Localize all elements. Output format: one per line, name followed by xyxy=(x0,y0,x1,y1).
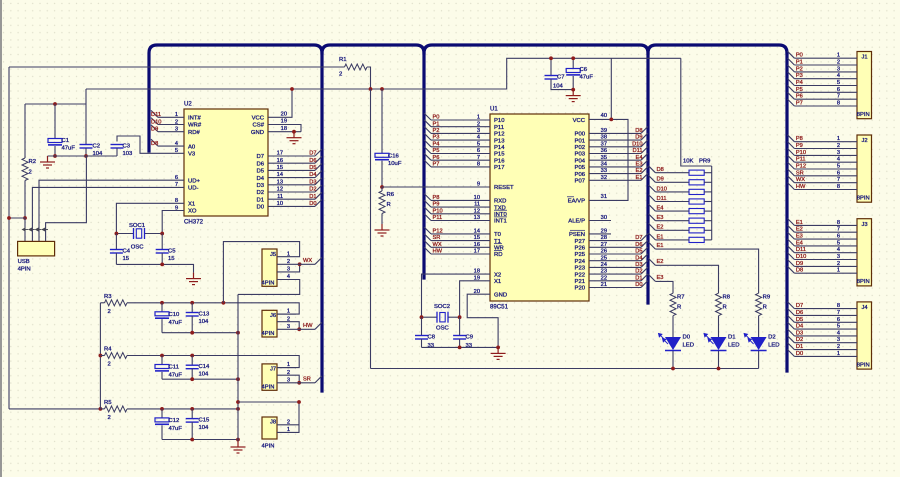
U2 pin 9 XO wire to crystal xyxy=(162,205,184,233)
svg-text:J5: J5 xyxy=(270,252,276,258)
svg-text:C15: C15 xyxy=(199,418,211,424)
svg-text:J7: J7 xyxy=(270,367,276,373)
svg-text:P6: P6 xyxy=(433,155,440,161)
svg-text:SOC2: SOC2 xyxy=(434,304,450,310)
svg-text:4: 4 xyxy=(837,157,840,163)
junction C11 top xyxy=(160,354,164,358)
svg-text:D9: D9 xyxy=(796,261,803,267)
svg-text:14: 14 xyxy=(277,172,283,178)
svg-text:104: 104 xyxy=(199,425,210,431)
svg-text:1: 1 xyxy=(287,309,290,315)
svg-text:R: R xyxy=(723,305,727,311)
wire ground rail 1 xyxy=(162,332,238,334)
connector J2 8PIN xyxy=(857,135,872,202)
svg-text:10: 10 xyxy=(474,195,480,201)
svg-text:P10: P10 xyxy=(796,150,806,156)
svg-text:12: 12 xyxy=(277,187,283,193)
junction C15 bottom xyxy=(190,438,194,442)
svg-text:P26: P26 xyxy=(575,246,586,252)
svg-text:PSEN: PSEN xyxy=(569,232,585,238)
svg-text:8PIN: 8PIN xyxy=(857,112,870,118)
svg-text:29: 29 xyxy=(601,229,607,235)
svg-text:2: 2 xyxy=(108,362,111,368)
U2 pin 19 CS# wire xyxy=(268,119,301,132)
svg-text:WX: WX xyxy=(303,258,312,264)
svg-text:P21: P21 xyxy=(575,279,585,285)
svg-text:P4: P4 xyxy=(433,141,440,147)
svg-text:D1: D1 xyxy=(256,197,264,203)
junction J5 pin1 riser on R3 rail xyxy=(222,301,226,305)
svg-text:19: 19 xyxy=(281,119,287,125)
svg-text:33: 33 xyxy=(466,343,473,349)
svg-text:5: 5 xyxy=(175,148,178,154)
svg-text:5: 5 xyxy=(837,80,840,86)
svg-text:PR9: PR9 xyxy=(699,159,710,165)
svg-text:D0: D0 xyxy=(256,205,264,211)
svg-text:P3: P3 xyxy=(796,73,803,79)
wire node rail R5 to ground spine xyxy=(127,408,238,410)
junction gnd rail1 at spine xyxy=(236,331,240,335)
svg-text:D11: D11 xyxy=(657,196,667,202)
svg-text:A0: A0 xyxy=(188,144,196,150)
wire ground rail 3 xyxy=(162,439,238,441)
svg-text:D3: D3 xyxy=(309,179,316,185)
svg-text:8: 8 xyxy=(837,184,840,190)
svg-text:D5: D5 xyxy=(256,169,264,175)
svg-text:C14: C14 xyxy=(199,364,211,370)
svg-text:E2: E2 xyxy=(636,168,643,174)
svg-text:X1: X1 xyxy=(188,202,195,208)
J7 pin stubs and numbers xyxy=(277,362,296,383)
svg-text:E2: E2 xyxy=(657,259,664,265)
svg-text:47uF: 47uF xyxy=(169,320,183,326)
junction C9 bottom xyxy=(458,346,462,350)
svg-text:P12: P12 xyxy=(433,229,443,235)
junction VBUS vertical xyxy=(7,216,11,220)
svg-text:D6: D6 xyxy=(635,242,642,248)
svg-text:P05: P05 xyxy=(575,165,586,171)
wire LED bottom rail xyxy=(371,368,759,370)
svg-text:8PIN: 8PIN xyxy=(857,362,870,368)
svg-text:3: 3 xyxy=(477,128,480,134)
svg-text:C8: C8 xyxy=(428,335,436,341)
svg-text:RESET: RESET xyxy=(494,185,514,191)
svg-text:17: 17 xyxy=(474,249,480,255)
svg-text:4PIN: 4PIN xyxy=(262,444,275,450)
svg-text:P15: P15 xyxy=(494,152,505,158)
svg-text:5: 5 xyxy=(837,240,840,246)
svg-text:26: 26 xyxy=(601,249,607,255)
svg-text:4: 4 xyxy=(287,274,290,280)
U1 left pins 1-8 wires from bus B3 with net labels P0-P7 xyxy=(424,113,490,121)
svg-text:8: 8 xyxy=(837,303,840,309)
svg-text:2: 2 xyxy=(837,60,840,66)
svg-text:RXD: RXD xyxy=(494,199,506,205)
svg-text:P20: P20 xyxy=(575,286,586,292)
svg-text:C3: C3 xyxy=(123,144,131,150)
svg-text:14: 14 xyxy=(474,229,480,235)
capacitor C7 104 xyxy=(545,58,574,89)
svg-text:SR: SR xyxy=(796,170,804,176)
ground at SOC1 xyxy=(186,273,201,285)
wire VCC horizontal rail y=89 xyxy=(86,58,681,89)
wire SOC2 ground rail xyxy=(422,346,499,348)
svg-text:4: 4 xyxy=(477,135,480,141)
svg-text:16: 16 xyxy=(474,242,480,248)
svg-text:E4: E4 xyxy=(657,206,664,212)
junction U1 GND at ground xyxy=(496,346,500,350)
svg-text:USB: USB xyxy=(18,259,30,265)
wire RC left riser xyxy=(99,303,101,409)
svg-text:D0: D0 xyxy=(635,282,642,288)
svg-text:CS#: CS# xyxy=(253,123,265,129)
junction C16 column/VCC xyxy=(380,87,384,91)
svg-text:6: 6 xyxy=(837,87,840,93)
svg-text:12: 12 xyxy=(474,208,480,214)
svg-text:P14: P14 xyxy=(494,145,505,151)
junction C7 top xyxy=(549,56,553,60)
wire J6 pin2 tie to pin3 xyxy=(296,322,299,330)
svg-text:3: 3 xyxy=(837,337,840,343)
svg-text:D9: D9 xyxy=(657,177,664,183)
svg-text:C5: C5 xyxy=(168,249,176,255)
svg-text:OSC: OSC xyxy=(436,326,450,332)
svg-text:38: 38 xyxy=(601,135,607,141)
U1 pin 9 RESET stub xyxy=(477,182,480,188)
svg-text:D1: D1 xyxy=(728,335,736,341)
svg-text:47uF: 47uF xyxy=(169,373,183,379)
svg-text:C4: C4 xyxy=(123,249,131,255)
svg-text:3: 3 xyxy=(837,150,840,156)
svg-text:HW: HW xyxy=(303,323,313,329)
svg-text:C13: C13 xyxy=(199,312,211,318)
wire ground rail 2 xyxy=(162,378,238,380)
svg-text:7: 7 xyxy=(837,94,840,100)
svg-text:D9: D9 xyxy=(151,127,158,133)
svg-text:30: 30 xyxy=(601,215,607,221)
svg-text:40: 40 xyxy=(601,113,607,119)
junction gnd rail3 at spine xyxy=(236,438,240,442)
capacitor C14 104 xyxy=(186,356,210,380)
svg-text:8: 8 xyxy=(837,101,840,107)
wire RESET to U1 pin 9 xyxy=(382,186,490,188)
wire ground rail y=156 xyxy=(48,155,118,157)
resistor network PR9 10K xyxy=(683,159,712,243)
junction C5 bottom xyxy=(160,263,164,267)
wire J7 pin2 tie to pin3 xyxy=(296,375,299,383)
bus B2 (center-left vertical, U2 data D0-D7 / WX,HW,SR) xyxy=(322,45,424,391)
svg-text:23: 23 xyxy=(601,269,607,275)
svg-text:D6: D6 xyxy=(309,158,316,164)
wire VCC feed to resistor network xyxy=(681,58,712,166)
svg-text:E3: E3 xyxy=(657,215,664,221)
svg-text:R5: R5 xyxy=(104,400,112,406)
junction C14 bottom xyxy=(190,377,194,381)
bus B5 (right vertical feeding J1-J4) xyxy=(785,53,788,371)
wire VCC drop to LED rail xyxy=(370,89,372,369)
svg-text:E3: E3 xyxy=(636,162,643,168)
svg-text:10uF: 10uF xyxy=(388,161,402,167)
wire net HW from J6 to bus B2 xyxy=(296,322,322,329)
junction J6 pins 2-3 xyxy=(297,327,301,331)
U2 pin 18 GND wire xyxy=(268,126,301,134)
svg-text:7: 7 xyxy=(477,155,480,161)
junction R4 left xyxy=(99,354,103,358)
junction C1 bottom xyxy=(53,154,57,158)
svg-text:4: 4 xyxy=(175,141,178,147)
svg-text:15: 15 xyxy=(123,256,130,262)
wire net E3 to R7 xyxy=(649,275,674,294)
wire J5 pin1 loop to R3 rail xyxy=(223,242,299,303)
svg-text:P6: P6 xyxy=(796,94,803,100)
svg-text:D4: D4 xyxy=(256,176,264,182)
svg-text:P13: P13 xyxy=(494,138,505,144)
svg-text:D2: D2 xyxy=(796,337,803,343)
ground at C6/C7 xyxy=(566,90,581,102)
svg-text:10K: 10K xyxy=(683,159,694,165)
svg-text:D11: D11 xyxy=(632,148,642,154)
capacitor C6 47uF xyxy=(566,58,593,89)
svg-text:P03: P03 xyxy=(575,152,586,158)
svg-text:D6: D6 xyxy=(796,310,803,316)
J4 wires from bus B5 with net labels xyxy=(788,302,858,309)
U1 pin 30 ALE/P stub xyxy=(589,215,611,221)
svg-text:D4: D4 xyxy=(635,255,642,261)
svg-text:27: 27 xyxy=(601,242,607,248)
svg-text:13: 13 xyxy=(277,179,283,185)
svg-text:33: 33 xyxy=(601,168,607,174)
wire VBUS top rail to R1 xyxy=(9,66,345,68)
svg-text:E4: E4 xyxy=(636,155,643,161)
svg-text:20: 20 xyxy=(474,289,480,295)
capacitor C10 47uF xyxy=(155,303,182,333)
U2 left pins 1-4 with bus entries and net labels D11 D10 D9 D8 xyxy=(151,110,184,118)
svg-text:3: 3 xyxy=(175,127,178,133)
svg-text:P10: P10 xyxy=(433,208,443,214)
svg-text:2: 2 xyxy=(837,261,840,267)
wire net E1 to R9 xyxy=(649,242,759,293)
svg-text:R9: R9 xyxy=(763,295,771,301)
svg-text:1: 1 xyxy=(477,115,480,121)
svg-text:8PIN: 8PIN xyxy=(857,279,870,285)
svg-text:P7: P7 xyxy=(433,162,440,168)
svg-text:D1: D1 xyxy=(796,344,803,350)
svg-text:D0: D0 xyxy=(309,201,316,207)
svg-text:P9: P9 xyxy=(796,143,803,149)
svg-text:19: 19 xyxy=(474,275,480,281)
svg-text:D7: D7 xyxy=(309,151,316,157)
svg-text:1: 1 xyxy=(175,112,178,118)
svg-text:P25: P25 xyxy=(575,252,586,258)
U1 right pins 39-32 wires to bus B4 with net labels D8-D11 E4-E1 xyxy=(589,127,648,135)
junction D1 at rail xyxy=(717,367,721,371)
svg-text:D10: D10 xyxy=(151,119,161,125)
U2 pin 7 UD- wire to USB pin 2 xyxy=(32,182,184,241)
U1 pin 20 GND wire to ground xyxy=(467,289,498,348)
resistor R4 xyxy=(100,347,127,368)
capacitor C12 47uF xyxy=(155,409,182,440)
svg-text:E1: E1 xyxy=(796,220,803,226)
svg-text:9: 9 xyxy=(477,182,480,188)
svg-text:16: 16 xyxy=(277,158,283,164)
svg-text:R7: R7 xyxy=(677,295,685,301)
svg-text:P22: P22 xyxy=(575,272,585,278)
svg-text:P5: P5 xyxy=(433,148,440,154)
svg-text:3: 3 xyxy=(287,324,290,330)
svg-text:8PIN: 8PIN xyxy=(857,196,870,202)
svg-text:D10: D10 xyxy=(657,186,667,192)
wire R1 to VCC rail xyxy=(367,67,371,89)
U1 pin 40 VCC wire xyxy=(589,113,628,200)
svg-text:P9: P9 xyxy=(433,202,440,208)
capacitor C5 15 xyxy=(156,234,177,265)
svg-text:P24: P24 xyxy=(575,259,586,265)
wire net E2 to R8 xyxy=(649,258,719,293)
svg-text:E4: E4 xyxy=(796,240,803,246)
connector J7 4PIN xyxy=(262,364,278,391)
svg-text:C2: C2 xyxy=(93,144,101,150)
wire node rail R4 to J7 pin1 xyxy=(127,356,299,368)
svg-text:J6: J6 xyxy=(270,313,276,319)
svg-text:17: 17 xyxy=(277,151,283,157)
svg-text:6: 6 xyxy=(837,170,840,176)
crystal SOC2 OSC xyxy=(422,304,460,332)
U2 right pins 17-10 wires with entries to bus B2, net labels D7-D0 xyxy=(268,149,322,157)
svg-text:5: 5 xyxy=(837,164,840,170)
diode D0 LED xyxy=(659,316,694,369)
svg-text:2: 2 xyxy=(287,419,290,425)
resistor R2 xyxy=(22,104,36,218)
wire net SR from J7 to bus B2 xyxy=(296,376,322,383)
svg-text:D5: D5 xyxy=(796,317,803,323)
svg-text:4PIN: 4PIN xyxy=(262,281,275,287)
connector J4 8PIN xyxy=(857,302,872,369)
svg-text:P2: P2 xyxy=(796,66,803,72)
junction C2 bottom / USB shield xyxy=(84,154,88,158)
svg-text:UD-: UD- xyxy=(188,186,199,192)
svg-text:D2: D2 xyxy=(635,269,642,275)
svg-text:P7: P7 xyxy=(796,101,803,107)
svg-text:E2: E2 xyxy=(657,225,664,231)
svg-text:1: 1 xyxy=(287,427,290,433)
svg-text:D8: D8 xyxy=(635,128,642,134)
wire VBUS to USB pin1 xyxy=(9,218,25,241)
svg-text:18: 18 xyxy=(474,269,480,275)
svg-text:D10: D10 xyxy=(632,141,642,147)
svg-text:D8: D8 xyxy=(151,141,158,147)
svg-text:R: R xyxy=(387,202,391,208)
svg-text:3: 3 xyxy=(287,267,290,273)
svg-text:P12: P12 xyxy=(494,132,504,138)
svg-text:6: 6 xyxy=(837,234,840,240)
svg-text:D8: D8 xyxy=(796,268,803,274)
U2 pin 5 V3 wire to decoupling rail xyxy=(117,136,184,154)
svg-text:24: 24 xyxy=(601,262,607,268)
svg-text:7: 7 xyxy=(837,177,840,183)
svg-text:P3: P3 xyxy=(433,135,440,141)
svg-text:LED: LED xyxy=(728,343,739,349)
svg-text:11: 11 xyxy=(474,202,480,208)
ground at U2 pin 18 xyxy=(287,132,302,144)
wire node rail R3 to J6 pin1 xyxy=(127,303,299,314)
svg-text:10: 10 xyxy=(277,201,283,207)
svg-text:9: 9 xyxy=(175,205,178,211)
svg-text:15: 15 xyxy=(277,165,283,171)
J1 wires from bus B5 with net labels xyxy=(788,51,858,58)
svg-text:28: 28 xyxy=(601,235,607,241)
svg-text:2: 2 xyxy=(108,309,111,315)
resistor R6 xyxy=(379,187,395,224)
svg-text:D3: D3 xyxy=(635,262,642,268)
svg-text:2: 2 xyxy=(29,170,32,176)
svg-text:VCC: VCC xyxy=(573,118,586,124)
junction RESET node xyxy=(380,185,384,189)
svg-text:2: 2 xyxy=(287,259,290,265)
connector J5 4PIN xyxy=(262,249,278,287)
svg-text:D4: D4 xyxy=(309,172,316,178)
svg-text:P4: P4 xyxy=(796,80,803,86)
junction C14 top xyxy=(190,354,194,358)
svg-text:D7: D7 xyxy=(635,235,642,241)
U1 pin 29 PSEN stub xyxy=(589,229,611,235)
ic U2 CH372 body xyxy=(184,101,268,226)
svg-text:J8: J8 xyxy=(270,420,276,426)
svg-text:D2: D2 xyxy=(256,190,264,196)
svg-text:D7: D7 xyxy=(256,154,264,160)
svg-text:15: 15 xyxy=(168,256,175,262)
svg-text:D8: D8 xyxy=(657,167,664,173)
svg-text:21: 21 xyxy=(601,282,607,288)
svg-text:LED: LED xyxy=(683,343,694,349)
svg-text:P0: P0 xyxy=(796,53,803,59)
svg-text:P06: P06 xyxy=(575,172,586,178)
svg-text:47uF: 47uF xyxy=(169,426,183,432)
svg-text:P5: P5 xyxy=(796,87,803,93)
diode D1 LED xyxy=(704,316,739,369)
svg-text:E1: E1 xyxy=(657,243,664,249)
junction R2 bottom / VBUS xyxy=(23,216,27,220)
svg-text:D11: D11 xyxy=(796,247,806,253)
junction C15 top xyxy=(190,407,194,411)
svg-text:R8: R8 xyxy=(723,295,731,301)
wire net WX from J5 to bus B2 xyxy=(296,257,322,264)
svg-text:P2: P2 xyxy=(433,128,440,134)
junction J7 pins 2-3 xyxy=(297,381,301,385)
svg-text:RD: RD xyxy=(494,252,503,258)
wire J5 pin3 tie to pin2 xyxy=(296,264,300,272)
svg-text:D9: D9 xyxy=(635,135,642,141)
svg-text:1: 1 xyxy=(837,53,840,59)
resistor R8 xyxy=(716,293,731,316)
svg-text:D3: D3 xyxy=(256,183,264,189)
svg-text:1: 1 xyxy=(837,136,840,142)
junction R1/VCC xyxy=(369,87,373,91)
svg-text:X2: X2 xyxy=(494,272,501,278)
capacitor C15 104 xyxy=(186,409,210,440)
svg-text:UD+: UD+ xyxy=(188,178,201,184)
svg-text:104: 104 xyxy=(199,372,210,378)
svg-text:D2: D2 xyxy=(309,187,316,193)
capacitor C2 104 xyxy=(80,104,104,157)
svg-text:15: 15 xyxy=(474,235,480,241)
svg-text:5: 5 xyxy=(477,141,480,147)
svg-text:X1: X1 xyxy=(494,279,501,285)
svg-text:P16: P16 xyxy=(494,158,505,164)
svg-text:HW: HW xyxy=(796,184,806,190)
svg-text:D0: D0 xyxy=(796,351,803,357)
svg-text:7: 7 xyxy=(175,182,178,188)
capacitor C1 47uF xyxy=(48,104,75,156)
